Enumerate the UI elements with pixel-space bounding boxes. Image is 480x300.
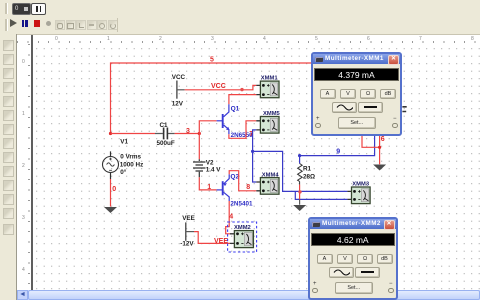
svg-text:28Ω: 28Ω [303, 173, 315, 180]
toolbar row 2 : simulation buttons [0, 17, 480, 35]
svg-text:4: 4 [229, 213, 233, 220]
wire V1 to ground [110, 179, 112, 207]
node junction blue [251, 150, 254, 153]
multimeter icon XMM4 [256, 172, 279, 194]
VEE power symbol [180, 215, 195, 247]
wire junction to XMM4 + [253, 151, 257, 182]
ground below R1 [293, 205, 306, 211]
svg-text:R1: R1 [303, 166, 312, 173]
node A junction at V1 top [109, 132, 112, 135]
schematic canvas [33, 44, 480, 290]
wire net 9 R1 top to behind dialog [300, 136, 375, 156]
wire node3 to Q1 base [199, 121, 216, 134]
svg-text:500uF: 500uF [157, 140, 175, 147]
svg-text:3: 3 [186, 128, 190, 135]
svg-text:9: 9 [336, 148, 340, 155]
svg-text:Q1: Q1 [231, 105, 240, 112]
svg-text:VEE: VEE [182, 215, 195, 222]
wire node 6 below dialog [362, 136, 380, 164]
wire node3 to V2 [198, 134, 200, 160]
wire VEE to XMM2 - [194, 232, 230, 244]
svg-text:2N5401: 2N5401 [230, 201, 253, 208]
wire Q1 emitter to XMM5 + (node 7) [229, 121, 256, 139]
svg-text:1: 1 [207, 184, 211, 191]
svg-text:12V: 12V [172, 101, 184, 108]
node 6 junction [378, 146, 381, 149]
wire V2 to Q2 base (node 1) [199, 177, 216, 190]
multimeter dialog XMM1 [311, 52, 402, 136]
transistor Q1 2N6550 [217, 104, 254, 139]
svg-text:1.4 V: 1.4 V [206, 167, 222, 174]
wire XMM1 - to Q1 collector (node 2) [229, 95, 256, 105]
resistor R1 28 ohm [298, 156, 315, 185]
vertical ruler [17, 44, 31, 290]
multimeter icon XMM5 [256, 111, 280, 133]
node 2 label [240, 88, 243, 91]
multimeter dialog XMM2 [308, 217, 398, 300]
horizontal scrollbar [17, 290, 480, 300]
svg-text:0 Vrms: 0 Vrms [120, 154, 141, 161]
transistor Q2 2N5401 [217, 173, 253, 207]
selection dashed box around XMM2 [228, 222, 257, 252]
wire R1 bottom to ground [299, 185, 301, 200]
ground node 6 [373, 165, 386, 171]
VCC power symbol [172, 74, 186, 107]
svg-text:V1: V1 [120, 139, 128, 146]
svg-text:1000 Hz: 1000 Hz [120, 162, 143, 169]
svg-text:XMM2: XMM2 [234, 225, 251, 231]
hidden instrument pin stubs right of dialog [402, 107, 406, 112]
svg-text:Q2: Q2 [230, 173, 239, 180]
node 3 junction [198, 132, 201, 135]
wire node5 top loop [111, 63, 312, 134]
svg-text:-12V: -12V [180, 240, 194, 247]
svg-text:VCC: VCC [211, 83, 226, 90]
horizontal ruler [17, 35, 480, 45]
wire XMM3 - branch [295, 191, 347, 199]
svg-text:0°: 0° [120, 168, 127, 176]
wire VCC to XMM1 + [185, 85, 257, 89]
node 9 junction [298, 154, 301, 157]
svg-text:0: 0 [112, 186, 116, 193]
svg-text:V2: V2 [206, 159, 214, 166]
svg-text:8: 8 [246, 184, 250, 191]
battery V2 [193, 159, 221, 177]
multimeter icon XMM3 [347, 182, 370, 204]
multimeter icon XMM1 [256, 76, 279, 98]
capacitor C1 [155, 122, 175, 147]
multimeter icon XMM2 (selected) [230, 225, 254, 248]
wire XMM5 - down to node junction [253, 130, 257, 152]
junction R1 bottom [298, 190, 301, 193]
svg-text:C1: C1 [160, 122, 169, 129]
wire V1 to C1 [111, 133, 156, 135]
left tool strip [0, 34, 17, 300]
ground below V1 [104, 207, 117, 213]
wire Q2 emitter to XMM4 - (node 8) [229, 171, 256, 191]
svg-text:VEE: VEE [214, 238, 228, 245]
wire Q2 collector to XMM2 + (node 4) [226, 201, 230, 234]
source V1 [103, 139, 144, 179]
svg-text:6: 6 [381, 136, 385, 143]
wire junction to XMM3 + [253, 151, 348, 191]
svg-text:5: 5 [210, 57, 214, 64]
toolbar row 1 [0, 0, 480, 17]
svg-text:VCC: VCC [172, 74, 186, 81]
wire C1 to node3 [175, 133, 200, 135]
